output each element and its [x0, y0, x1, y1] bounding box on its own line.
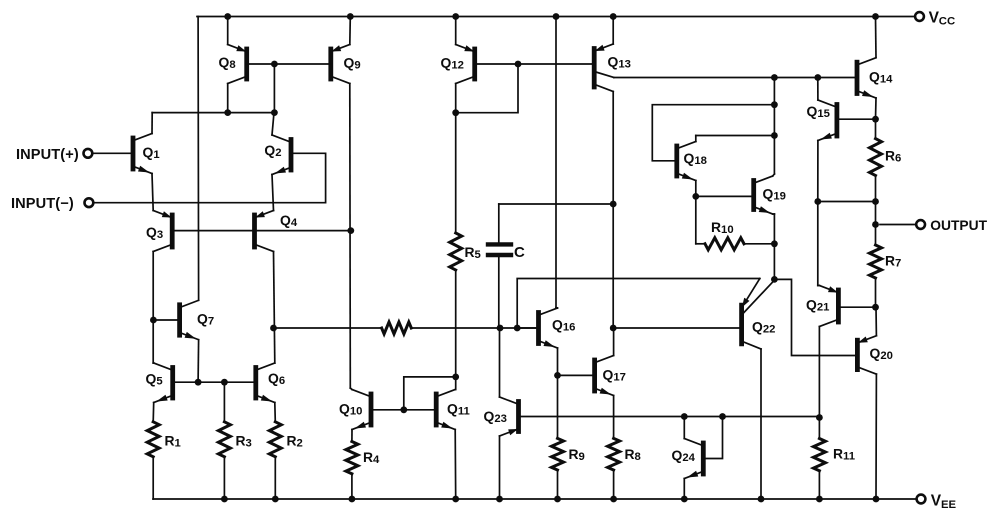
node Q18 collector tap [771, 132, 778, 139]
wire Q12 collector drop [455, 84, 457, 113]
resistor R9 [552, 438, 585, 470]
wire VCC rail [197, 16, 915, 18]
wire Q15 base [839, 118, 876, 120]
node Q17 collector junction [610, 325, 617, 332]
wire R3 to VEE [223, 457, 225, 499]
wire R9 riser [557, 375, 559, 438]
resistor R6 [870, 139, 902, 176]
wire Q17 collector riser [613, 328, 615, 356]
wire Q12 emitter to VCC [455, 17, 457, 45]
wire Q3 collector drop [152, 252, 154, 364]
wire Q20 collector to VEE [875, 374, 877, 499]
node C bottom tap [497, 325, 504, 332]
wire VCC drop to Q16 [555, 17, 557, 308]
wire base tap drop [273, 64, 275, 113]
wire R1 to VEE corner [152, 457, 154, 499]
node Q12c junction [452, 109, 459, 116]
wire Q19 emitter drop [773, 214, 775, 279]
transistor Q10 [339, 390, 371, 430]
node Q14e junction [872, 116, 879, 123]
wire R7 to Q21 base node [875, 278, 877, 307]
node Q12e-VCC [452, 13, 459, 20]
svg-text:EE: EE [941, 499, 957, 511]
wire Q13colA tap [771, 74, 778, 81]
transistor Q18 [677, 142, 707, 181]
node C-tap [610, 201, 617, 208]
svg-text:C: C [514, 244, 525, 261]
node R10 right tap [771, 240, 778, 247]
terminal VEE [917, 493, 957, 511]
wire Q1 base from INPUT(+) [93, 152, 131, 154]
wire R6 to output node [875, 176, 877, 246]
transistor Q17 [595, 356, 626, 396]
node Q11 collector tie [452, 374, 459, 381]
wire R11 lead [818, 418, 820, 439]
wire Q17 emitter drop [613, 396, 615, 439]
node Q17 base tap [554, 372, 561, 379]
wire Q9 collector drop [349, 84, 352, 389]
node Q10Q11 base tap [400, 406, 407, 413]
wire Q6 collector node line [274, 327, 382, 329]
node R3-VEE [221, 496, 228, 503]
wire Q5-Q6 base line [173, 381, 256, 383]
node Q15 collector tap [814, 74, 821, 81]
resistor R2 [269, 422, 303, 457]
transistor Q1 [133, 134, 160, 174]
wire R4 to VEE [351, 474, 353, 499]
transistor Q14 [857, 58, 893, 98]
transistor Q2 [264, 135, 291, 175]
wire Q16 base [517, 327, 538, 329]
node Q7 base tap [150, 317, 157, 324]
node Q21 base junction [872, 304, 879, 311]
node Q18 base net tap [771, 101, 778, 108]
node R11 junction [816, 414, 823, 421]
transistor Q16 [539, 308, 576, 348]
svg-text:OUTPUT: OUTPUT [930, 218, 987, 233]
wire Q13 emitter to VCC [612, 17, 614, 45]
node Q14c-VCC [872, 13, 879, 20]
node Q22 collector tap [771, 276, 778, 283]
wire R10 left riser [695, 196, 697, 243]
node Q23e-VEE [496, 496, 503, 503]
wire Q2-Q4 emitter link [272, 175, 274, 211]
wire VEE rail [153, 498, 917, 500]
wire Q10 emitter to R4 [351, 430, 353, 442]
transistor Q19 [754, 176, 786, 214]
wire Q4 collector drop [274, 252, 275, 364]
wire Q3-Q4 base line [172, 230, 351, 232]
node Q9e-VCC [347, 13, 354, 20]
wire Q20 base link [774, 279, 855, 355]
wire Q21 base [840, 306, 875, 308]
node Q24e-VEE [681, 496, 688, 503]
resistor R5 [450, 113, 481, 270]
transistor Q6 [256, 363, 285, 403]
svg-text:INPUT(−): INPUT(−) [11, 196, 74, 212]
node Q8Q9 base tap [271, 61, 278, 68]
wire Q23 collector riser [499, 328, 501, 397]
wire Q2 collector riser [272, 113, 274, 135]
wire Q18 emitter drop [695, 181, 697, 197]
wire Q24 base tie [705, 417, 722, 459]
node R4-VEE [349, 496, 356, 503]
wire Q18 base loop [652, 105, 774, 161]
terminal VCC [915, 9, 955, 27]
resistor R4 [346, 442, 380, 474]
wire Q12 diode tie [456, 64, 518, 113]
wire Q12-Q13 base line [475, 63, 595, 65]
wire Q10-Q11 base line [371, 409, 436, 411]
svg-text:INPUT(+): INPUT(+) [16, 147, 79, 163]
transistor Q21 [806, 286, 838, 327]
wire R2 to VEE [274, 457, 276, 499]
wire Q13 collectorB drop [612, 92, 614, 329]
wire R11 to VEE [818, 471, 820, 499]
wire Q7 base [153, 319, 177, 321]
node Q7e tap [195, 379, 202, 386]
resistor R3 [218, 422, 251, 457]
terminal INPUT(-) [11, 196, 93, 212]
wire Q5 emitter to R1 [152, 403, 155, 422]
node mirror junction [271, 109, 278, 116]
wire Q9col to Q10 collector [350, 388, 352, 390]
node output upper [872, 198, 879, 205]
wire Q16base riser [517, 279, 760, 329]
node Q8e-VCC [224, 13, 231, 20]
wire Q21 collector drop [818, 327, 820, 418]
transistor Q8 [219, 45, 247, 84]
wire Q9 emitter to VCC [349, 17, 352, 45]
wire Q14 emitter drop [875, 98, 878, 119]
terminal INPUT(+) [16, 147, 92, 163]
node output tap [872, 221, 879, 228]
wire Q7 emitter drop [197, 340, 200, 383]
resistor R-mid [382, 322, 412, 334]
transistor Q3 [146, 211, 172, 252]
capacitor C [488, 204, 525, 328]
wire mid line to Q16 base [411, 327, 536, 329]
node Q11e-VEE [452, 496, 459, 503]
wire R9 to VEE [557, 470, 559, 499]
transistor Q5 [146, 363, 173, 403]
node Q22-VEE [758, 496, 765, 503]
node R8-VEE [610, 496, 617, 503]
wire Q21 emitter riser [818, 202, 820, 286]
node Q16 base tap [514, 325, 521, 332]
wire Q19 base [696, 195, 752, 197]
resistor R7 [870, 245, 902, 278]
wire Q24 collector riser [683, 417, 685, 439]
wire Q8 collector drop [227, 84, 229, 113]
wire output stub [880, 224, 916, 226]
node Q3Q4 base / Q9 collector [347, 227, 354, 234]
wire bias top drop [773, 78, 775, 175]
wire Q8-Q9 base line [247, 63, 331, 65]
wire Q14 collector to VCC [875, 17, 878, 58]
wire R3 riser [223, 382, 225, 422]
node Q8c junction [224, 109, 231, 116]
transistor Q23 [484, 397, 519, 436]
node Q20-VEE [873, 496, 880, 503]
wire Q23 emitter to VEE [499, 436, 501, 499]
wire Q18 collector line [696, 136, 775, 142]
node R9-VEE [554, 496, 561, 503]
transistor Q11 [436, 390, 470, 430]
wire Q13 collectorA line [614, 77, 855, 79]
wire Q7 collector to VCC [197, 17, 200, 301]
transistor Q22 [742, 279, 776, 350]
transistor Q24 [672, 439, 704, 479]
transistor Q20 [857, 336, 892, 374]
wire Q11 emitter to VEE [454, 430, 457, 500]
transistor Q15 [807, 100, 837, 141]
node Q24 base tap [719, 413, 726, 420]
wire Q24 emitter to VEE [683, 479, 685, 500]
wire Q2 base loop to INPUT(-) [94, 153, 326, 202]
wire R5 to Q11 collector [455, 270, 457, 390]
wire R6 lead [875, 119, 877, 138]
node R11-VEE [816, 496, 823, 503]
node Q15e junction [814, 198, 821, 205]
terminal OUTPUT [916, 218, 987, 233]
transistor Q7 [180, 300, 215, 339]
wire Q20 emitter riser [875, 307, 877, 336]
transistor Q9 [331, 45, 361, 84]
wire mirror horizontal [152, 112, 274, 114]
wire C to Q13colB [499, 203, 613, 205]
wire Q23 base line [521, 416, 820, 418]
resistor R1 [147, 422, 181, 457]
wire Q15 emitter drop [817, 141, 819, 202]
node Q13e-VCC [610, 13, 617, 20]
wire Q6 emitter to R2 [274, 403, 277, 422]
wire Q16 collector diag helper [556, 307, 558, 310]
wire Q22 lower collector to VEE [760, 349, 762, 499]
resistor R11 [813, 439, 855, 471]
wire Q3col to Q5 collector [152, 362, 155, 364]
wire Q1-Q3 emitter link [152, 174, 153, 211]
wire R8 to VEE [613, 470, 615, 499]
node R2-VEE [272, 496, 279, 503]
wire Q22 base line [613, 327, 739, 329]
wire base tie riser [404, 377, 456, 410]
transistor Q13 [594, 44, 631, 92]
resistor R10 [696, 219, 775, 250]
node R3 tap [221, 379, 228, 386]
wire Q1 collector riser [151, 113, 153, 134]
node Q4Q6 tap [270, 325, 277, 332]
node Q19 base tap [692, 193, 699, 200]
transistor Q4 [255, 211, 298, 252]
wire Q15 collector riser [817, 78, 819, 101]
wire output link [818, 201, 876, 203]
svg-text:CC: CC [939, 16, 955, 28]
wire Q17 base [558, 374, 593, 376]
wire Q19 collector diag [773, 174, 775, 176]
transistor Q12 [441, 45, 475, 84]
node Q12 base tie [515, 61, 522, 68]
wire Q16 emitter drop [557, 348, 559, 375]
node Q24 collector tap [681, 413, 688, 420]
wire Q8 emitter to VCC [227, 17, 229, 45]
resistor R8 [608, 438, 641, 470]
node Q16c-VCC [553, 13, 560, 20]
